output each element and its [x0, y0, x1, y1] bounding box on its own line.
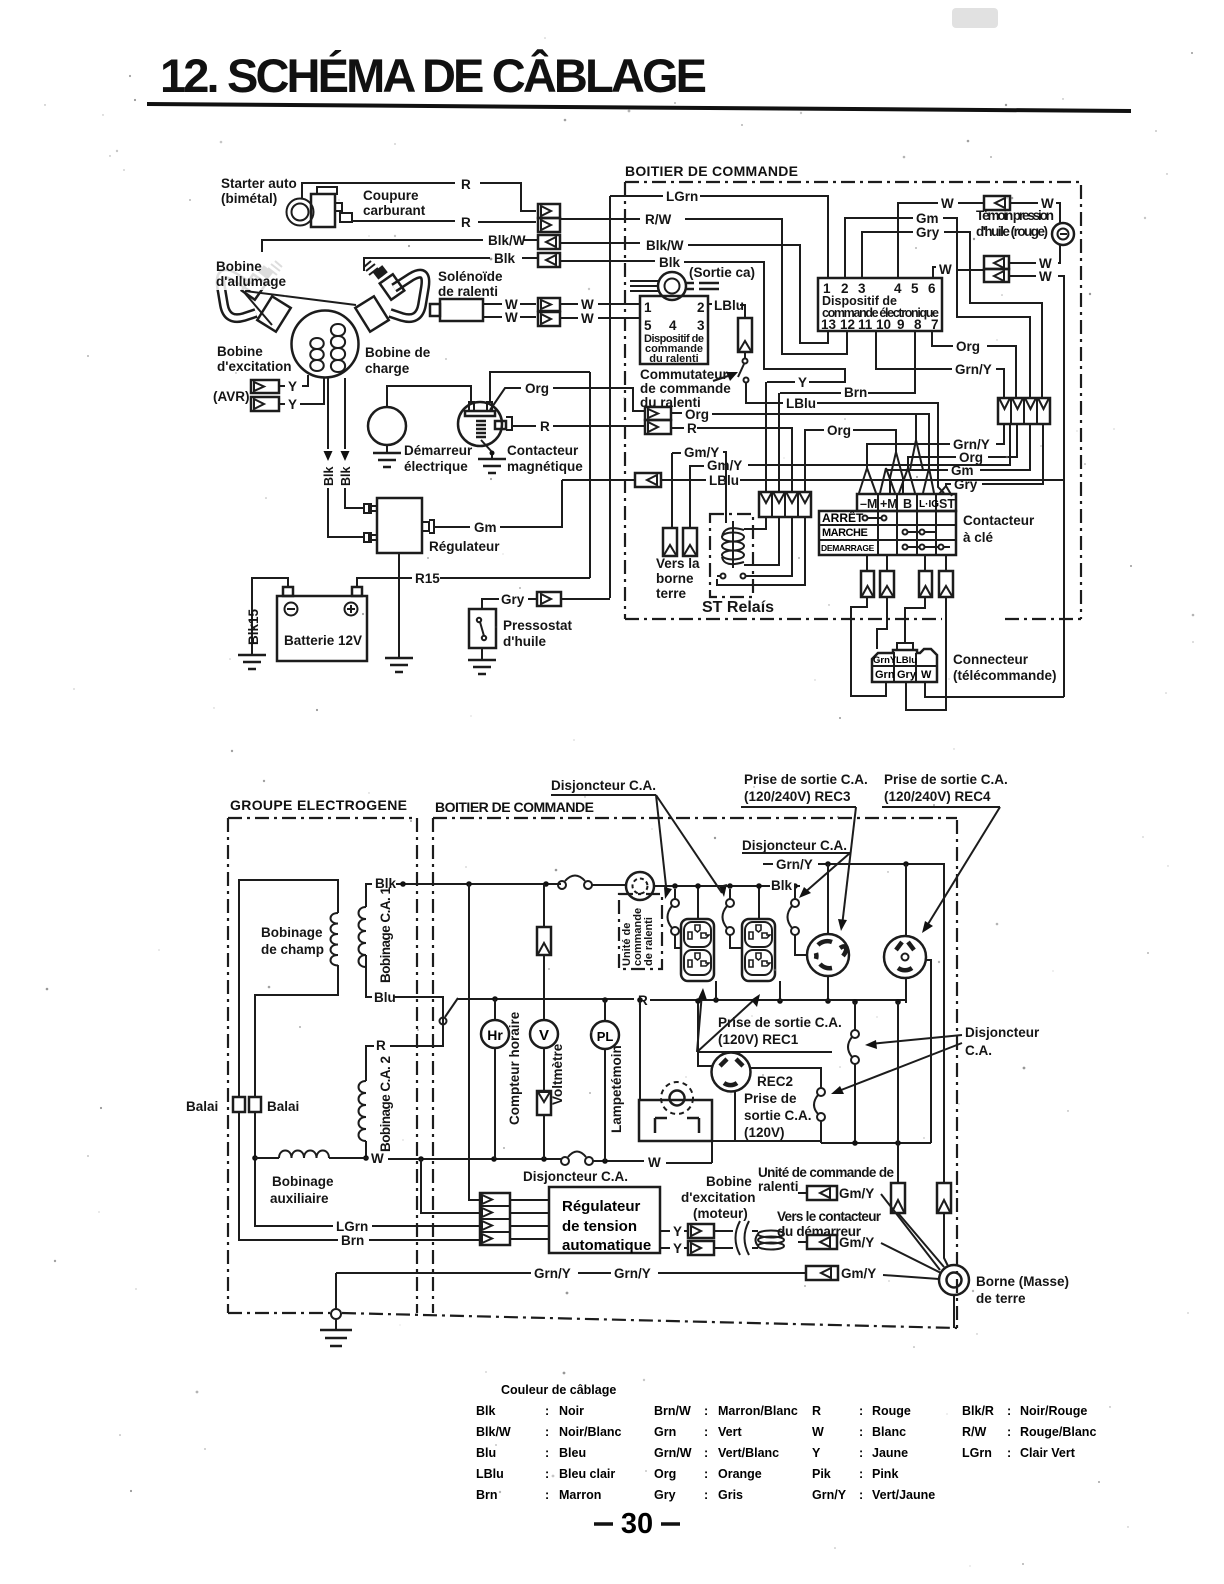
- svg-text:V: V: [539, 1027, 549, 1044]
- svg-text::: :: [704, 1425, 708, 1439]
- borne to bottom border: [953, 1295, 955, 1328]
- contacteur à clé table: [819, 494, 956, 555]
- wire Blk/W into boitier: [560, 242, 640, 244]
- svg-text:Brn: Brn: [341, 1233, 364, 1248]
- svg-text:Prise de: Prise de: [744, 1091, 797, 1106]
- bobine de charge coil (right, 4 loops): [331, 324, 345, 372]
- wire Blu from C.A.1: [366, 955, 372, 997]
- svg-text:charge: charge: [365, 361, 410, 376]
- svg-text:12. SCHÉMA DE CÂBLAGE: 12. SCHÉMA DE CÂBLAGE: [160, 49, 706, 102]
- wire W top row y203: [898, 203, 938, 278]
- wire Y to AVR 1: [279, 375, 308, 386]
- svg-text:W: W: [1039, 269, 1052, 284]
- connector Gm/Y 2: [798, 1235, 941, 1273]
- svg-text:de terre: de terre: [976, 1291, 1026, 1306]
- svg-text:Bobine: Bobine: [217, 344, 263, 359]
- svg-text:Marron/Blanc: Marron/Blanc: [718, 1404, 798, 1418]
- svg-text:1: 1: [644, 300, 652, 315]
- svg-text:Pik: Pik: [812, 1467, 831, 1481]
- svg-text:Gm/Y: Gm/Y: [839, 1186, 874, 1201]
- svg-text:8: 8: [914, 317, 922, 332]
- régulateur input connector stack: [480, 1193, 510, 1245]
- wire Grn/Y row y444: [996, 424, 1004, 444]
- svg-text:(bimétal): (bimétal): [221, 191, 277, 206]
- svg-text:Blk/W: Blk/W: [476, 1425, 511, 1439]
- Blk wires from charge coil down to régulateur: [328, 378, 364, 537]
- lamp feed from R bus: [639, 1000, 641, 1100]
- duplex receptacle REC1 left: [681, 919, 714, 981]
- prise de sortie REC1 label: [697, 988, 842, 1052]
- svg-text::: :: [704, 1488, 708, 1502]
- ST relais contacts: [717, 574, 746, 579]
- REC3 return to R bus: [827, 976, 829, 1001]
- svg-text:Y: Y: [288, 397, 297, 412]
- svg-text::: :: [1007, 1404, 1011, 1418]
- spark plug cap left: [221, 261, 291, 332]
- stack input wires: [469, 884, 480, 1200]
- breaker REC3: [788, 885, 808, 955]
- svg-text:MARCHE: MARCHE: [822, 527, 867, 539]
- wire W to témoin lamp: [1010, 202, 1038, 204]
- svg-text:Grn/Y: Grn/Y: [534, 1266, 571, 1281]
- svg-text:(Sortie ca): (Sortie ca): [689, 265, 755, 280]
- connector strip2 (4 cells): [998, 398, 1050, 424]
- svg-text:Marron: Marron: [559, 1488, 601, 1502]
- svg-text:à clé: à clé: [963, 530, 994, 545]
- duplex receptacle REC1 right: [742, 919, 775, 981]
- svg-text:W: W: [505, 310, 518, 325]
- AVR connector pair: [251, 380, 279, 411]
- borne masse de terre: [939, 1265, 969, 1295]
- svg-text:Gm/Y: Gm/Y: [841, 1266, 876, 1281]
- svg-text:automatique: automatique: [562, 1237, 651, 1254]
- svg-text:Borne (Masse): Borne (Masse): [976, 1274, 1069, 1289]
- svg-text:magnétique: magnétique: [507, 459, 583, 474]
- svg-text:BOITIER DE COMMANDE: BOITIER DE COMMANDE: [435, 799, 594, 815]
- svg-text:Blk/W: Blk/W: [488, 233, 526, 248]
- svg-text:Gm/Y: Gm/Y: [839, 1235, 874, 1250]
- svg-text:(télécommande): (télécommande): [953, 668, 1057, 683]
- svg-text:LGrn: LGrn: [336, 1219, 368, 1234]
- svg-text:Bobinage C.A. 2: Bobinage C.A. 2: [378, 1056, 393, 1152]
- svg-text:Noir/Rouge: Noir/Rouge: [1020, 1404, 1087, 1418]
- svg-text:Solénoïde: Solénoïde: [438, 269, 503, 284]
- svg-text:W: W: [581, 311, 594, 326]
- svg-text:L·IG: L·IG: [919, 499, 939, 510]
- wire R (top) from starter to connector: [302, 183, 455, 198]
- svg-text:W: W: [812, 1425, 824, 1439]
- inner vertical bus x610: [609, 196, 611, 598]
- svg-text:LGrn: LGrn: [666, 189, 698, 204]
- duplex returns: [715, 981, 717, 1000]
- svg-text:Blk/R: Blk/R: [962, 1404, 994, 1418]
- connector Gm/Y 1: [798, 1186, 940, 1270]
- svg-text:Starter auto: Starter auto: [221, 176, 297, 191]
- Grn/Y ground row: [336, 1272, 531, 1274]
- connector pair W (arrows right): [538, 298, 560, 326]
- wire R (second) from carburetor to connector: [352, 220, 455, 222]
- boitier de commande lower dashed box: [433, 818, 957, 1329]
- svg-text:Contacteur: Contacteur: [963, 513, 1035, 528]
- svg-text:Blk/W: Blk/W: [646, 238, 684, 253]
- bobine d'excitation (moteur) flex + coil: [714, 1221, 784, 1255]
- svg-text:Unité de commande de: Unité de commande de: [758, 1165, 894, 1180]
- TITLE: [147, 8, 1131, 113]
- Blk bus breaker (main): [558, 876, 592, 890]
- wire R15 from battery to bus: [357, 578, 590, 587]
- unité de commande de ralenti dashed box: [619, 894, 662, 969]
- Y outputs to excitation coil: [660, 1224, 714, 1256]
- svg-text:Bleu clair: Bleu clair: [559, 1467, 615, 1481]
- svg-text::: :: [859, 1488, 863, 1502]
- svg-text:de commande: de commande: [640, 381, 731, 396]
- svg-text:Gm/Y: Gm/Y: [707, 458, 742, 473]
- wires W W into ralenti box: [560, 303, 640, 305]
- wire Blk to connector: [364, 258, 490, 271]
- svg-text:Y: Y: [673, 1224, 682, 1239]
- vertical connectors to borne: [891, 1183, 951, 1213]
- svg-text:Blu: Blu: [476, 1446, 496, 1460]
- svg-text:(120V) REC1: (120V) REC1: [718, 1032, 799, 1047]
- svg-text:ARRÊT: ARRÊT: [822, 510, 864, 525]
- svg-text:Bobine de: Bobine de: [365, 345, 431, 360]
- svg-text:GrnY: GrnY: [873, 655, 897, 666]
- bobine d'excitation coil (left, 3 loops): [310, 338, 324, 371]
- wire Gry row y231: [862, 232, 913, 278]
- svg-text:W: W: [941, 196, 954, 211]
- svg-text:Gry: Gry: [954, 477, 978, 492]
- svg-text:W: W: [371, 1151, 384, 1166]
- svg-text:de ralenti: de ralenti: [643, 917, 655, 966]
- Grn/Y row: [763, 863, 773, 865]
- svg-text:Prise de sortie C.A.: Prise de sortie C.A.: [744, 772, 868, 787]
- svg-text:Grn/Y: Grn/Y: [614, 1266, 651, 1281]
- wire Gry to inner bus: [561, 598, 610, 600]
- wire Gm row y218: [845, 218, 913, 278]
- svg-text:Gm: Gm: [474, 520, 497, 535]
- breaker REC1a: [668, 889, 682, 948]
- svg-text:Y: Y: [812, 1446, 821, 1460]
- wire from magnétique terminal to R15 bus: [490, 372, 590, 402]
- svg-text:Batterie 12V: Batterie 12V: [284, 633, 362, 648]
- R bus: [458, 998, 634, 1000]
- svg-text::: :: [545, 1425, 549, 1439]
- svg-text::: :: [545, 1446, 549, 1460]
- REC4 ground wire: [905, 864, 907, 936]
- wire Brn row y392: [780, 392, 841, 394]
- svg-text:9: 9: [897, 317, 905, 332]
- svg-text:Y: Y: [673, 1241, 682, 1256]
- svg-text:Gm: Gm: [916, 211, 939, 226]
- legend column 4: [962, 1404, 1096, 1460]
- svg-text::: :: [859, 1446, 863, 1460]
- strip1 outputs to ST relais: [744, 517, 766, 529]
- régulateur ground: [398, 553, 400, 658]
- wire Org row y346: [932, 331, 953, 346]
- smudge top right: [952, 8, 998, 28]
- wires from connectors to borne: [898, 1213, 944, 1267]
- legend column 3: [812, 1404, 935, 1502]
- selector switch contact: [440, 1018, 447, 1025]
- svg-text:R: R: [812, 1404, 821, 1418]
- groupe electrogene dashed box: [228, 818, 417, 1313]
- UPPER DIAGRAM: [213, 163, 1081, 710]
- svg-text:(120/240V) REC3: (120/240V) REC3: [744, 789, 851, 804]
- svg-text:Org: Org: [956, 339, 980, 354]
- REC4 loop to breaker row: [926, 960, 931, 1143]
- svg-text:Disjoncteur C.A.: Disjoncteur C.A.: [523, 1169, 628, 1184]
- svg-text:Bobinage: Bobinage: [261, 925, 323, 940]
- connectors below key switch: [861, 555, 953, 597]
- svg-text:PL: PL: [597, 1029, 614, 1044]
- dispositif de commande du ralenti box: [640, 296, 708, 365]
- wire link row lamp box to breaker: [713, 1140, 821, 1142]
- title underline: [147, 102, 1131, 113]
- wire Gm row y470: [980, 424, 1030, 470]
- ST relais dashed box: [710, 514, 753, 597]
- svg-text:5: 5: [644, 318, 652, 333]
- svg-text:Voltmètre: Voltmètre: [550, 1043, 565, 1105]
- prise de sortie REC3 label: [741, 772, 868, 931]
- svg-text:Grn: Grn: [875, 669, 895, 681]
- svg-text:Brn: Brn: [476, 1488, 498, 1502]
- wire R/W into boitier: [560, 218, 640, 220]
- svg-text::: :: [545, 1488, 549, 1502]
- svg-text:Org: Org: [827, 423, 851, 438]
- svg-text:LBlu: LBlu: [786, 396, 816, 411]
- svg-text:Bobinage: Bobinage: [272, 1174, 334, 1189]
- svg-text::: :: [704, 1404, 708, 1418]
- svg-text:auxiliaire: auxiliaire: [270, 1191, 329, 1206]
- svg-text:ST: ST: [939, 497, 955, 511]
- balai wires down: [239, 1112, 338, 1240]
- svg-text:ralenti: ralenti: [758, 1179, 799, 1194]
- svg-text:LBlu: LBlu: [714, 298, 744, 313]
- dispositif de commande électronique box: [818, 278, 942, 332]
- svg-text:Jaune: Jaune: [872, 1446, 908, 1460]
- connector W témoin (arrow left): [984, 196, 1010, 210]
- LEGEND: [476, 1383, 1096, 1540]
- svg-text:2: 2: [697, 300, 705, 315]
- svg-text:W: W: [939, 262, 952, 277]
- wire Gm/Y row y452 to ST relais coil: [672, 452, 681, 454]
- legend column 2: [654, 1404, 798, 1502]
- connector pair R/RW (arrows right): [538, 204, 560, 232]
- W bus breaker: [561, 1152, 593, 1166]
- svg-text:Couleur de câblage: Couleur de câblage: [501, 1383, 616, 1397]
- REC3 twist-lock socket: [807, 934, 849, 976]
- svg-text:du ralenti: du ralenti: [649, 353, 699, 365]
- svg-text:de champ: de champ: [261, 942, 324, 957]
- svg-text:Gry: Gry: [897, 669, 917, 681]
- svg-text:Grn/Y: Grn/Y: [776, 857, 813, 872]
- svg-text:Vert/Jaune: Vert/Jaune: [872, 1488, 935, 1502]
- svg-text:Grn/Y: Grn/Y: [812, 1488, 847, 1502]
- svg-text:Balai: Balai: [186, 1099, 218, 1114]
- ST relais coil: [722, 521, 744, 568]
- wire W pin6: [933, 267, 936, 279]
- svg-text:Noir/Blanc: Noir/Blanc: [559, 1425, 622, 1439]
- svg-text:(AVR): (AVR): [213, 389, 250, 404]
- svg-text:3: 3: [697, 318, 705, 333]
- key switch contact symbols: [863, 516, 951, 550]
- svg-text:Régulateur: Régulateur: [562, 1198, 641, 1215]
- svg-text::: :: [704, 1446, 708, 1460]
- svg-text:Blk: Blk: [494, 251, 516, 266]
- svg-text:Y: Y: [798, 375, 807, 390]
- svg-text:R/W: R/W: [645, 212, 672, 227]
- svg-text:Org: Org: [654, 1467, 676, 1481]
- svg-text:Vert: Vert: [718, 1425, 742, 1439]
- wire from C.A.2 to W bus: [365, 1141, 367, 1158]
- wires to connecteur télécommande: [851, 597, 886, 696]
- svg-text:B: B: [903, 497, 912, 511]
- svg-text:Démarreur: Démarreur: [404, 443, 473, 458]
- wire Blk from C.A.1 to bus: [366, 884, 372, 907]
- wire R row y428: [671, 427, 684, 429]
- svg-text:DEMARRAGE: DEMARRAGE: [821, 543, 875, 553]
- REC3 ground wire: [827, 864, 829, 934]
- svg-text:13: 13: [821, 317, 837, 332]
- fuse connector vertical: [738, 318, 752, 352]
- svg-text:(120/240V) REC4: (120/240V) REC4: [884, 789, 991, 804]
- svg-text:Grn: Grn: [654, 1425, 676, 1439]
- svg-text:Régulateur: Régulateur: [429, 539, 500, 554]
- svg-text:Brn: Brn: [844, 385, 867, 400]
- LOWER DIAGRAM: [186, 772, 1069, 1346]
- ground symbol bottom: [320, 1273, 352, 1346]
- leader lines to spark plug caps: [243, 291, 272, 325]
- breaker REC1b: [723, 889, 743, 948]
- central bundle verticals into strip1: [765, 382, 767, 492]
- unité de commande circle on bus: [626, 872, 654, 900]
- svg-text:Balai: Balai: [267, 1099, 299, 1114]
- funnels into key switch columns: [859, 468, 876, 493]
- wire LGrn row y196: [610, 195, 663, 197]
- svg-text:11: 11: [858, 317, 873, 332]
- balai brushes: [233, 1097, 261, 1112]
- meters Hr V PL: [481, 999, 509, 1159]
- svg-text:Rouge/Blanc: Rouge/Blanc: [1020, 1425, 1096, 1439]
- svg-text:d'allumage: d'allumage: [216, 274, 286, 289]
- svg-text:électrique: électrique: [404, 459, 468, 474]
- svg-text:Blk: Blk: [339, 467, 353, 487]
- REC2 breaker: [814, 1088, 825, 1143]
- svg-text:Brn/W: Brn/W: [654, 1404, 691, 1418]
- svg-text:d'huile: d'huile: [503, 634, 546, 649]
- connector pair Org/R (left, arrows right): [645, 407, 671, 434]
- batterie 12V: [277, 587, 367, 661]
- svg-text:Bleu: Bleu: [559, 1446, 586, 1460]
- bobinage de champ coil: [331, 910, 339, 968]
- svg-text:Rouge: Rouge: [872, 1404, 911, 1418]
- svg-text:Coupure: Coupure: [363, 188, 419, 203]
- wire Org from magnétique to boitier: [490, 388, 521, 410]
- wire Gry from pressostat to connector: [497, 598, 536, 600]
- svg-text:R/W: R/W: [962, 1425, 987, 1439]
- stack output wires: [510, 1200, 549, 1239]
- svg-text:Disjoncteur C.A.: Disjoncteur C.A.: [742, 838, 847, 853]
- svg-text::: :: [545, 1467, 549, 1481]
- wire LBlu row y480: [562, 479, 706, 481]
- svg-text:Hr: Hr: [487, 1027, 503, 1043]
- wire Org long row y414: [671, 412, 682, 414]
- démarreur électrique (starter motor): [368, 386, 471, 467]
- svg-text::: :: [859, 1404, 863, 1418]
- svg-text::: :: [859, 1425, 863, 1439]
- wire Grn/Y row y369: [876, 331, 952, 369]
- svg-text:d'excitation: d'excitation: [681, 1190, 755, 1205]
- svg-text:Grn/W: Grn/W: [654, 1446, 692, 1460]
- wire Y to AVR 2: [279, 378, 324, 404]
- svg-text::: :: [545, 1404, 549, 1418]
- connector Blk/W (arrow left): [538, 235, 560, 249]
- wire Org row y457: [988, 424, 1017, 457]
- bobine d'allumage label: [214, 259, 292, 290]
- wire LBlu from pin2 to fuse: [708, 303, 712, 305]
- champ wires to balais: [239, 880, 338, 1097]
- commutateur leader arrow: [713, 376, 728, 381]
- svg-text:Orange: Orange: [718, 1467, 762, 1481]
- bobinage C.A.1 coil: [359, 907, 367, 967]
- svg-text:carburant: carburant: [363, 203, 426, 218]
- svg-text:R: R: [376, 1038, 386, 1053]
- connector strip1 (4 cells): [759, 492, 811, 517]
- svg-text:4: 4: [669, 318, 677, 333]
- W bus: [255, 1157, 368, 1159]
- svg-text:10: 10: [876, 317, 891, 332]
- wire Y row y382: [767, 381, 795, 383]
- svg-text:Prise de sortie C.A.: Prise de sortie C.A.: [884, 772, 1008, 787]
- svg-text::: :: [1007, 1425, 1011, 1439]
- svg-text:6: 6: [928, 281, 936, 296]
- svg-text:Gm: Gm: [951, 463, 974, 478]
- svg-text:7: 7: [931, 317, 939, 332]
- svg-text:Noir: Noir: [559, 1404, 584, 1418]
- svg-text:Blk: Blk: [659, 255, 681, 270]
- svg-text:Blanc: Blanc: [872, 1425, 906, 1439]
- svg-text:Blu: Blu: [374, 990, 396, 1005]
- wire Blk bus right segment: [654, 885, 800, 887]
- svg-text:Lampetémoin: Lampetémoin: [609, 1045, 624, 1133]
- wire Gm/Y row y465: [690, 466, 704, 528]
- connector pair W (right side): [984, 256, 1009, 282]
- svg-text:LBlu: LBlu: [476, 1467, 504, 1481]
- svg-text:Bobine: Bobine: [216, 259, 262, 274]
- svg-text:R: R: [461, 177, 471, 192]
- svg-text:Bobine: Bobine: [706, 1174, 752, 1189]
- svg-text:30: 30: [621, 1508, 653, 1540]
- wire Org label row y430: [805, 430, 824, 492]
- wire Gm from régulateur up to LBlu row: [434, 480, 562, 527]
- svg-text:Gry: Gry: [501, 592, 525, 607]
- svg-text:REC2: REC2: [757, 1074, 793, 1089]
- legend column 1: [476, 1404, 622, 1502]
- svg-text:5: 5: [911, 281, 919, 296]
- svg-text:Compteur horaire: Compteur horaire: [507, 1011, 522, 1125]
- Blk label on bus: [770, 878, 794, 891]
- spark plug cap right: [355, 261, 425, 332]
- svg-text::: :: [704, 1467, 708, 1481]
- connector Blk (arrow left): [538, 253, 560, 267]
- svg-text:W: W: [581, 297, 594, 312]
- svg-text:Pressostat: Pressostat: [503, 618, 573, 633]
- connector Gm/Y 3: [806, 1266, 939, 1281]
- wire R from magnétique: [512, 425, 645, 427]
- svg-text:(moteur): (moteur): [693, 1206, 748, 1221]
- contacteur magnétique: [458, 402, 512, 473]
- coupure carburant (fuel cut solenoid): [287, 187, 353, 227]
